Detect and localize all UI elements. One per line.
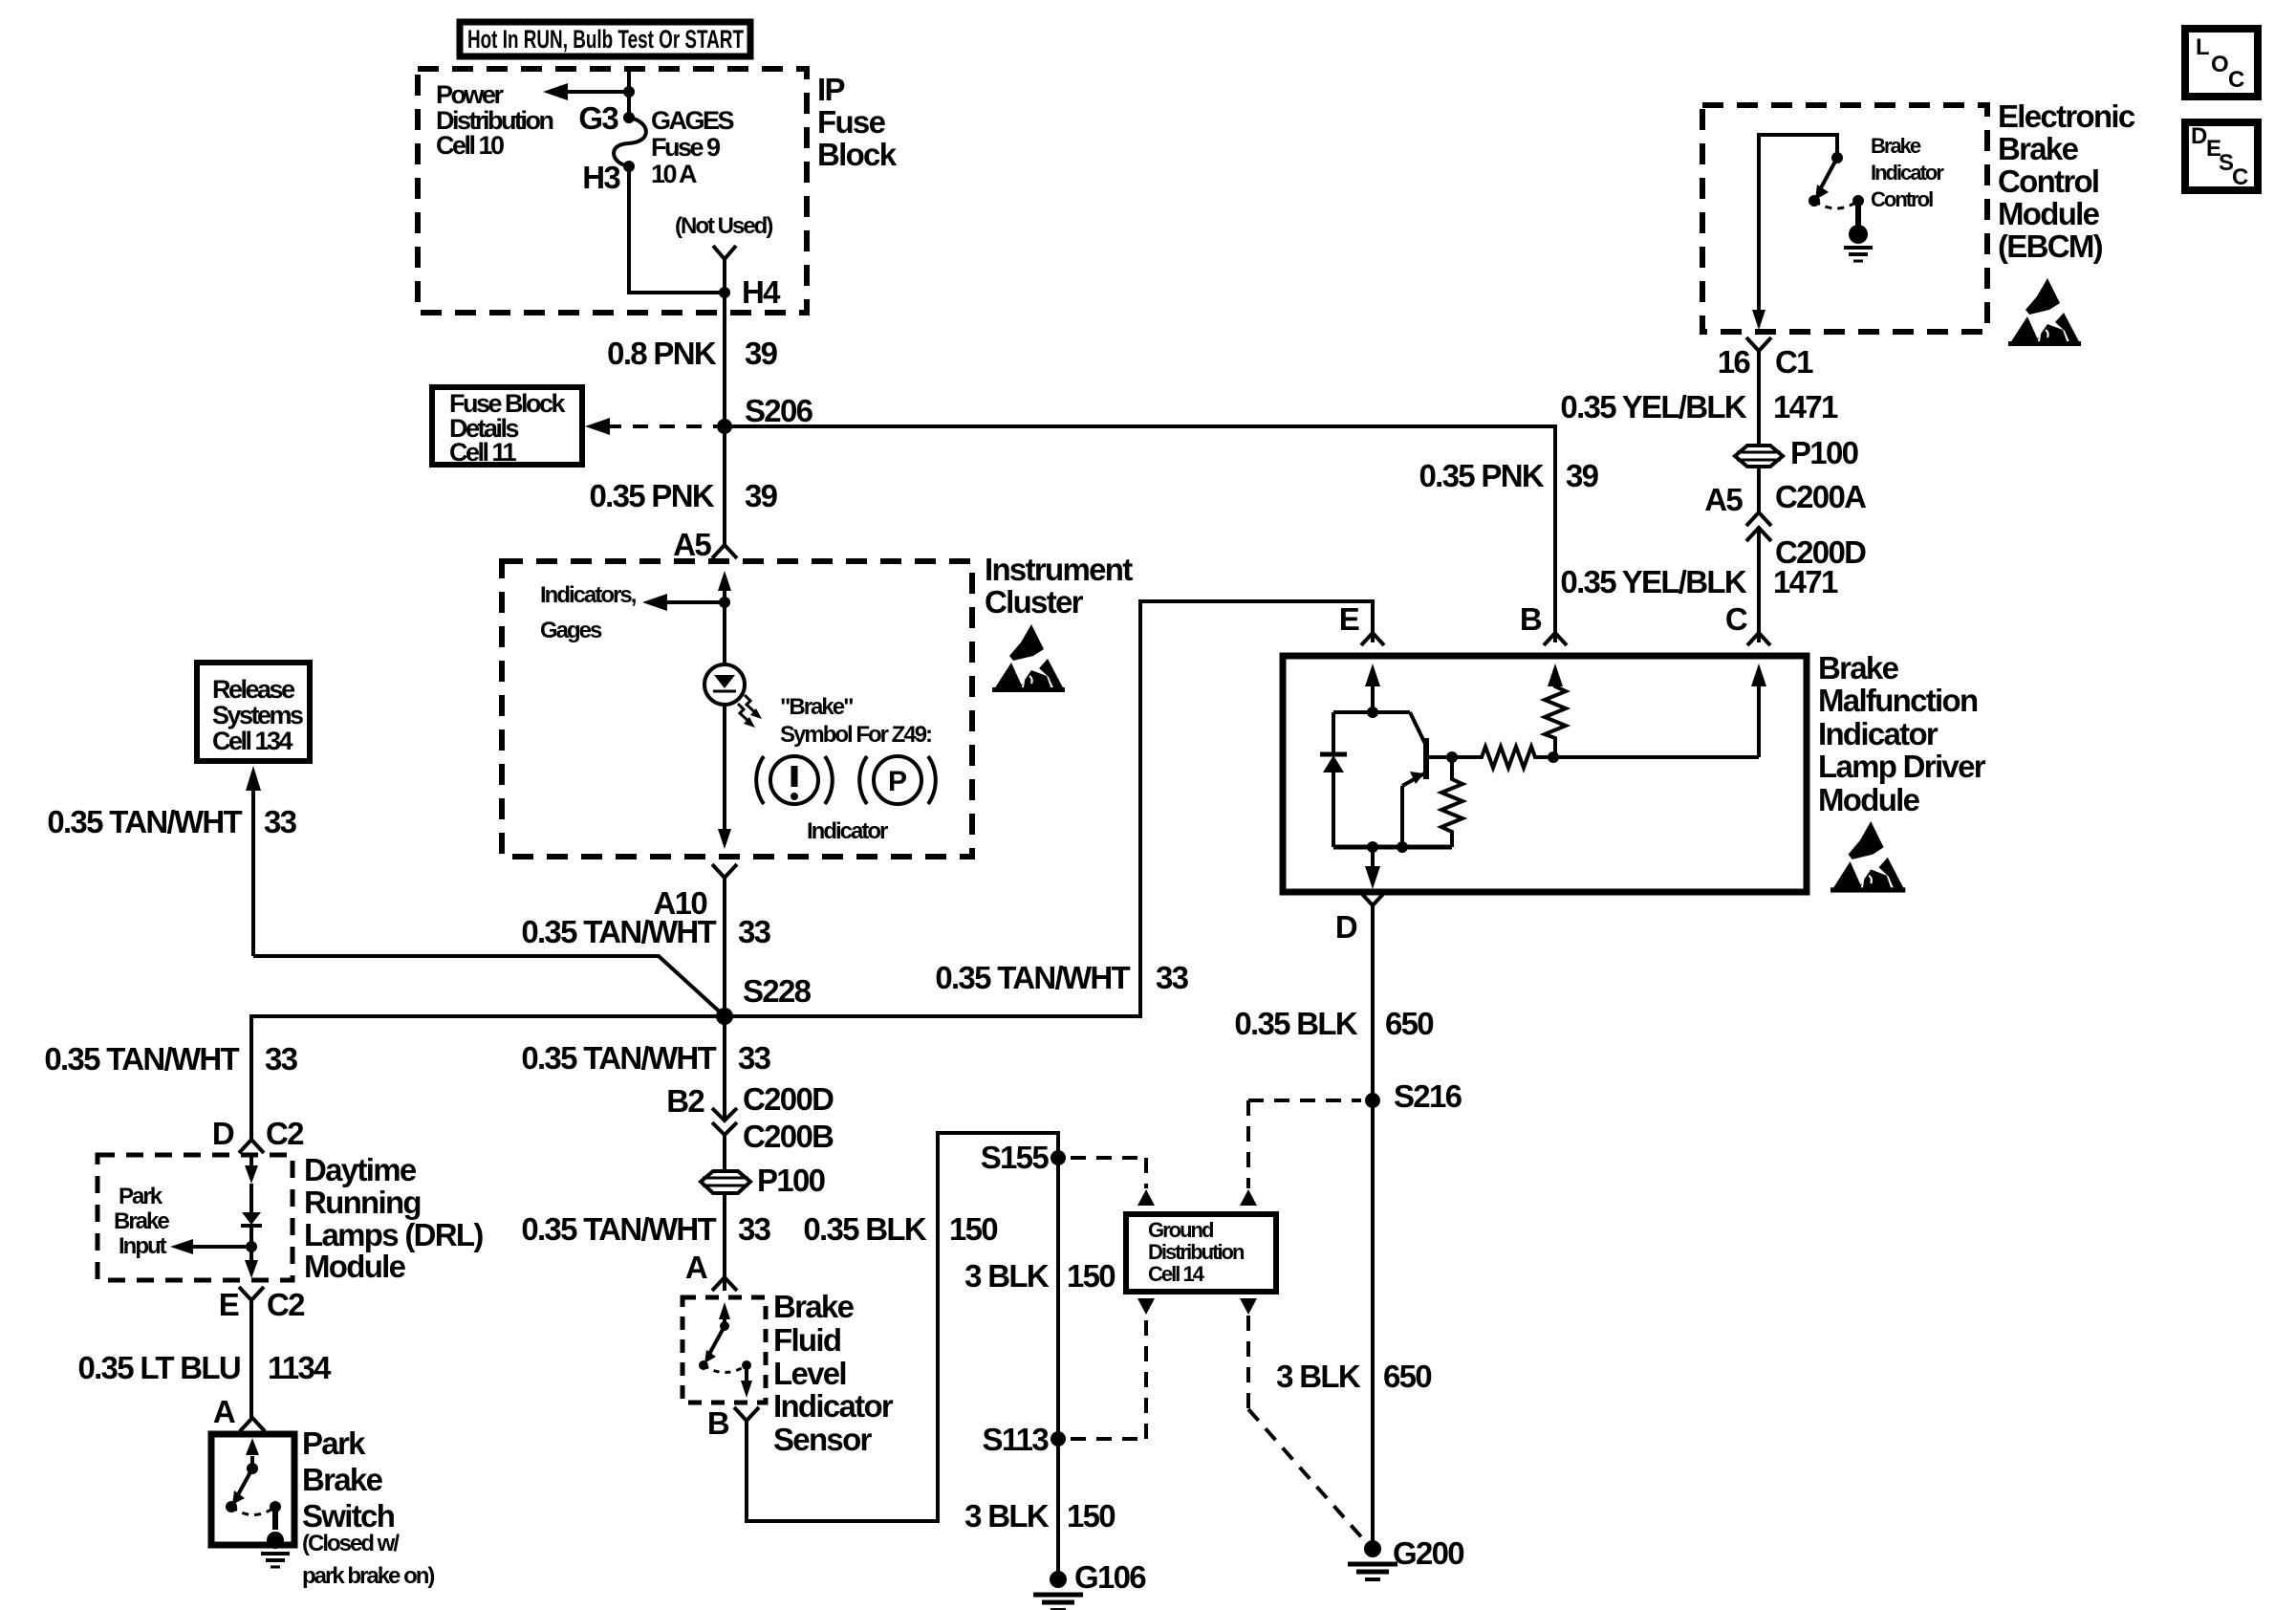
node collector top junction [1367,707,1378,718]
wire dashed S155 to ground distribution [1071,1158,1155,1206]
label wire 0.35 TAN/WHT 33 upper [521,914,770,949]
svg-text:C: C [2228,67,2244,93]
Park Brake Switch box [211,1434,294,1545]
svg-text:D: D [212,1116,234,1151]
svg-text:0.35 LT BLU: 0.35 LT BLU [77,1350,240,1385]
connector chevron D into DRL [239,1140,264,1153]
label Indicators, Gages [540,582,637,643]
svg-text:Release: Release [212,675,295,704]
ground brake indicator control [1844,225,1873,261]
node H3 terminal [623,161,635,172]
label Brake Malfunction Indicator Lamp Driver Module [1818,650,1986,817]
EBCM dashed box [1702,105,1987,332]
svg-text:Lamps (DRL): Lamps (DRL) [304,1217,483,1252]
svg-text:S155: S155 [981,1140,1050,1175]
svg-text:Fluid: Fluid [773,1322,840,1358]
svg-text:Control: Control [1998,163,2098,199]
svg-text:(EBCM): (EBCM) [1998,228,2103,264]
svg-text:0.35 TAN/WHT: 0.35 TAN/WHT [521,914,716,949]
svg-text:0.35 TAN/WHT: 0.35 TAN/WHT [44,1041,239,1077]
wire arrow to Indicators, Gages [642,594,725,611]
label IP Fuse Block [817,72,898,172]
svg-text:1471: 1471 [1773,389,1838,424]
label Instrument Cluster [985,552,1133,620]
reference box Fuse Block Details Cell 11 [432,387,582,467]
svg-text:0.35 PNK: 0.35 PNK [590,478,715,513]
label wire 0.35 PNK 39 [590,478,778,513]
svg-text:Instrument: Instrument [985,552,1133,587]
label A5 C200A C200D [1704,479,1866,570]
wire C200B down to P100 [723,1135,726,1172]
svg-text:Module: Module [1818,782,1920,817]
svg-text:"Brake": "Brake" [780,694,853,720]
svg-text:Control: Control [1871,187,1933,211]
svg-text:C200B: C200B [743,1119,834,1154]
connector C200A/C200D pass-through [1746,512,1771,541]
label Daytime Running Lamps (DRL) Module [304,1152,483,1284]
svg-text:39: 39 [1566,458,1599,493]
svg-text:P100: P100 [757,1163,825,1198]
label wire 0.8 PNK 39 [607,336,777,371]
label D C2 [212,1116,304,1151]
svg-text:Park: Park [119,1184,163,1209]
svg-text:Running: Running [304,1185,421,1220]
wire emitter rail [1333,845,1452,850]
svg-text:0.35 YEL/BLK: 0.35 YEL/BLK [1560,389,1746,424]
svg-text:0.35 YEL/BLK: 0.35 YEL/BLK [1560,564,1746,599]
resistor base-emitter [1441,757,1462,847]
reference box DESC [2185,122,2258,190]
wire arrow pin C internal [1751,664,1766,757]
wire E to park brake switch [249,1300,253,1418]
svg-text:150: 150 [949,1211,997,1247]
wire H3 to H4 [629,166,725,293]
node base junction [1446,751,1458,763]
label Park Brake Switch [302,1425,395,1534]
ESD symbol driver module [1830,821,1905,893]
IP Fuse Block dashed box [418,69,807,313]
svg-text:Cell 14: Cell 14 [1148,1262,1205,1286]
wire EBCM internal feed [1759,135,1837,313]
ground G200 [1348,1540,1397,1579]
connector chevron A into switch [240,1418,265,1431]
svg-text:Module: Module [304,1249,406,1284]
svg-text:Fuse: Fuse [817,104,886,140]
wire D down to S216 [1371,905,1375,1100]
svg-text:Level: Level [773,1356,846,1391]
label "Brake" Symbol For Z49: [780,694,931,748]
svg-text:E: E [1339,601,1359,637]
label wire 3 BLK 150 upper [964,1258,1115,1294]
svg-text:3 BLK: 3 BLK [964,1498,1050,1534]
connector A10 below cluster [712,864,737,878]
svg-text:0.35 TAN/WHT: 0.35 TAN/WHT [935,960,1130,995]
wire S206 to module pin B [725,426,1555,642]
node S155 splice [1051,1150,1066,1165]
svg-text:0.35 BLK: 0.35 BLK [803,1211,926,1247]
svg-text:33: 33 [738,1040,771,1076]
diode clamp [1320,712,1347,847]
wire sensor B loop to S155 [747,1133,1058,1521]
Brake Fluid Level Indicator Sensor dashed box [682,1297,766,1403]
wire release branch to S228 [253,956,725,1016]
wire arrow pin D internal [1365,847,1380,889]
label wire 0.35 BLK 150 [803,1211,997,1247]
node H4 terminal [719,287,730,298]
label wire 0.35 BLK 650 [1234,1006,1433,1041]
svg-text:Brake: Brake [773,1289,855,1324]
ESD symbol EBCM [2008,278,2081,346]
svg-text:Brake: Brake [1998,131,2079,166]
wire feed into fuse block [627,69,631,118]
wire P100 down to sensor A [723,1193,726,1291]
connector chevron D pin [1360,892,1385,905]
svg-text:Cell 10: Cell 10 [436,131,504,160]
wire arrow to Release Systems [246,766,261,956]
label GAGES Fuse 9 10 A [651,106,734,188]
transistor Q1 driver [1402,712,1452,847]
node rail D junction [1367,841,1378,853]
connector chevron E below DRL [239,1287,264,1300]
label wire 0.35 TAN/WHT 33 below S228 [521,1040,770,1076]
node indicators gages junction [719,597,730,608]
DRL module dashed box [97,1155,292,1280]
label wire 0.35 LT BLU 1134 [77,1350,332,1385]
wire arrow EBCM output [1752,310,1765,330]
connector chevron A5 into cluster [712,545,737,558]
wire S155 to S113 [1056,1158,1060,1439]
label wire 0.35 YEL/BLK 1471 lower [1560,564,1838,599]
svg-text:Malfunction: Malfunction [1818,683,1978,718]
svg-text:10 A: 10 A [651,160,697,188]
switch brake indicator control [1809,152,1864,227]
light rays from lamp [738,695,762,728]
svg-text:C2: C2 [266,1116,304,1151]
svg-text:park brake on): park brake on) [302,1563,434,1589]
node S113 splice [1051,1431,1066,1447]
svg-text:Systems: Systems [212,701,303,729]
svg-text:Brake: Brake [302,1462,383,1497]
reference box Ground Distribution Cell 14 [1126,1214,1276,1292]
node S228 splice [716,1008,733,1025]
svg-text:B: B [1520,601,1542,637]
ground G106 [1033,1571,1083,1610]
svg-text:Indicator: Indicator [1871,161,1944,185]
wire arrow to Park Brake Input [170,1239,251,1254]
node park brake input junction [246,1241,257,1252]
label wire 3 BLK 150 lower [964,1498,1115,1534]
wire arrow out bottom of DRL [245,1247,258,1278]
svg-text:D: D [1335,909,1357,945]
svg-text:H3: H3 [582,160,620,195]
svg-text:A: A [685,1250,707,1285]
svg-text:0.35 TAN/WHT: 0.35 TAN/WHT [521,1211,716,1247]
svg-text:Distribution: Distribution [1148,1240,1245,1264]
wire dashed reference to Fuse Block Details [585,418,717,435]
label E C2 [219,1287,305,1322]
label wire 0.35 YEL/BLK 1471 upper [1560,389,1838,424]
svg-text:Gages: Gages [540,618,602,643]
svg-text:A5: A5 [673,527,711,562]
wire C200D down to module pin C [1757,528,1761,642]
label B2 C200D C200B [666,1081,834,1154]
svg-text:Switch: Switch [302,1498,395,1534]
svg-text:Power: Power [436,80,505,109]
svg-text:0.35 TAN/WHT: 0.35 TAN/WHT [47,804,242,839]
svg-text:C200D: C200D [743,1081,834,1117]
wire arrow to Power Distribution [543,83,629,100]
label Park Brake Input [114,1184,169,1259]
reference box Release Systems Cell 134 [197,663,310,761]
wire cluster branch to module pin E [725,601,1373,1016]
svg-text:C1: C1 [1775,344,1813,380]
svg-text:G106: G106 [1074,1559,1146,1595]
connector P100 grommet right [1735,446,1783,467]
label wire 0.35 TAN/WHT 33 to sensor [521,1211,770,1247]
svg-text:0.35 PNK: 0.35 PNK [1419,458,1545,493]
svg-text:IP: IP [817,72,844,107]
svg-text:0.35 TAN/WHT: 0.35 TAN/WHT [521,1040,716,1076]
reference box LOC [2185,29,2258,97]
label wire 0.35 TAN/WHT 33 E branch [935,960,1188,995]
ground park brake switch [261,1532,290,1567]
svg-text:C: C [2232,164,2248,190]
svg-text:P: P [888,766,907,797]
wire arrow pin B internal [1548,664,1563,686]
svg-text:150: 150 [1067,1498,1115,1534]
svg-text:S216: S216 [1394,1078,1462,1114]
wire dashed ground distribution to G200 [1240,1298,1365,1541]
svg-text:Park: Park [302,1425,366,1461]
svg-text:A5: A5 [1704,482,1743,517]
svg-text:33: 33 [738,1211,771,1247]
svg-text:B: B [707,1405,729,1441]
symbol brake warning (!) indicator [756,756,833,804]
wire S228 horizontal left to DRL column [251,1016,725,1140]
label Brake Fluid Level Indicator Sensor [773,1289,894,1457]
svg-text:Indicator: Indicator [773,1388,894,1424]
svg-text:(Not Used): (Not Used) [675,213,772,239]
svg-text:16: 16 [1718,344,1751,380]
node rail emitter junction [1397,841,1408,853]
label wire 0.35 PNK 39 right [1419,458,1599,493]
svg-text:39: 39 [745,336,778,371]
svg-text:Module: Module [1998,196,2100,231]
Instrument Cluster dashed box [502,561,972,857]
svg-text:Lamp Driver: Lamp Driver [1818,749,1986,784]
wire S113 to G106 [1056,1439,1060,1579]
svg-text:Hot In RUN, Bulb Test Or START: Hot In RUN, Bulb Test Or START [467,25,744,54]
svg-text:Brake: Brake [1818,650,1899,685]
connector chevron B pin [1544,633,1567,645]
wire S206 down to cluster A5 [723,426,726,545]
svg-text:S206: S206 [745,393,813,428]
wire top node branches [1333,710,1410,714]
wire P100 to C200 connector [1757,467,1761,512]
switch park brake contact [226,1438,281,1530]
svg-text:O: O [2211,52,2229,77]
svg-text:D: D [2191,123,2207,149]
wire dashed S113 to ground distribution [1071,1298,1155,1439]
ESD symbol instrument cluster [992,624,1065,692]
node base network junction [1548,751,1559,763]
svg-text:C2: C2 [267,1287,305,1322]
svg-text:GAGES: GAGES [651,106,734,135]
svg-text:S113: S113 [983,1422,1050,1457]
svg-text:Cluster: Cluster [985,584,1084,620]
svg-text:C: C [1725,601,1747,637]
label wire 3 BLK 650 [1276,1359,1431,1394]
svg-text:Indicators,: Indicators, [540,582,637,608]
label wire 0.35 TAN/WHT 33 left column [44,1041,297,1077]
svg-text:C200A: C200A [1775,479,1866,514]
svg-text:G3: G3 [578,100,618,136]
svg-text:E: E [219,1287,239,1322]
label 16 C1 [1718,344,1813,380]
svg-text:Symbol For Z49:: Symbol For Z49: [780,722,931,748]
connector chevron E pin [1361,633,1384,645]
symbol park brake (P) indicator [859,756,936,804]
svg-text:1134: 1134 [268,1350,332,1385]
power feed box "Hot In RUN, Bulb Test Or START" [460,22,750,56]
resistor pull-up to B [1545,679,1566,757]
svg-text:Brake: Brake [114,1208,169,1234]
wire C1 down to P100 [1757,351,1761,446]
svg-text:Input: Input [119,1233,167,1259]
svg-text:3 BLK: 3 BLK [964,1258,1050,1294]
wire H4 down out of fuse block [723,293,726,426]
svg-text:A: A [213,1394,235,1429]
svg-text:Brake: Brake [1871,134,1921,158]
wire arrow entering cluster [718,571,731,602]
svg-text:33: 33 [738,914,771,949]
connector C200 B2 pass-through [712,1108,737,1135]
svg-text:33: 33 [264,804,297,839]
resistor base series [1452,747,1553,768]
svg-text:Daytime: Daytime [304,1152,417,1187]
connector stub (Not Used) [713,246,736,293]
node feed junction [623,86,635,98]
svg-text:G200: G200 [1393,1535,1463,1571]
lamp BRAKE indicator bulb [704,664,745,705]
wire lamp down to A10 [718,705,731,849]
svg-text:Ground: Ground [1148,1218,1213,1242]
wire S216 down to G200 [1371,1100,1375,1549]
svg-text:39: 39 [745,478,778,513]
svg-text:H4: H4 [742,274,781,310]
node S216 splice [1365,1093,1380,1108]
node G3 terminal [623,112,635,123]
label (Closed w/ park brake on) [302,1531,434,1589]
wire S228 down to C200 connector [723,1016,726,1119]
wire A10 down to S228 [723,878,726,1016]
label Power Distribution Cell 10 [436,80,552,160]
svg-text:Indicator: Indicator [807,818,888,844]
wire arrow pin E internal [1365,664,1380,712]
svg-text:B2: B2 [666,1083,704,1119]
wire base node to pin C [1553,755,1759,759]
svg-text:33: 33 [265,1041,298,1077]
svg-text:0.8 PNK: 0.8 PNK [607,336,717,371]
svg-text:(Closed w/: (Closed w/ [302,1531,400,1556]
connector chevron B below sensor [734,1407,759,1421]
svg-text:Cell 11: Cell 11 [449,438,517,467]
svg-text:Electronic: Electronic [1998,98,2135,134]
fuse F9 GAGES element [614,118,646,166]
connector P100 grommet [701,1171,750,1193]
wire dashed S216 to ground distribution [1240,1100,1361,1206]
svg-text:Fuse 9: Fuse 9 [651,133,721,162]
svg-text:650: 650 [1385,1006,1433,1041]
label Brake Indicator Control [1871,134,1944,211]
svg-text:Block: Block [817,137,898,172]
svg-text:P100: P100 [1790,435,1858,470]
switch brake fluid level sensor [699,1302,752,1398]
connector chevron C1 below EBCM [1746,337,1771,351]
diode DRL input [241,1184,262,1247]
label wire 0.35 TAN/WHT 33 release branch [47,804,296,839]
svg-text:3 BLK: 3 BLK [1276,1359,1361,1394]
svg-text:L: L [2196,34,2210,60]
wire junction to lamp [723,602,726,664]
svg-text:Sensor: Sensor [773,1422,873,1457]
svg-text:S228: S228 [743,973,812,1009]
node S206 splice [717,419,732,434]
svg-text:Cell 134: Cell 134 [212,727,293,755]
svg-text:Indicator: Indicator [1818,716,1939,751]
connector chevron A into sensor [712,1277,737,1291]
svg-text:150: 150 [1067,1258,1115,1294]
wire arrow into DRL [245,1155,258,1184]
connector chevron C pin [1747,633,1770,645]
Brake Malfunction Indicator Lamp Driver Module box [1283,656,1807,892]
svg-text:1471: 1471 [1773,564,1838,599]
svg-text:650: 650 [1383,1359,1431,1394]
svg-text:33: 33 [1156,960,1189,995]
label Electronic Brake Control Module (EBCM) [1998,98,2135,264]
svg-text:0.35 BLK: 0.35 BLK [1234,1006,1357,1041]
